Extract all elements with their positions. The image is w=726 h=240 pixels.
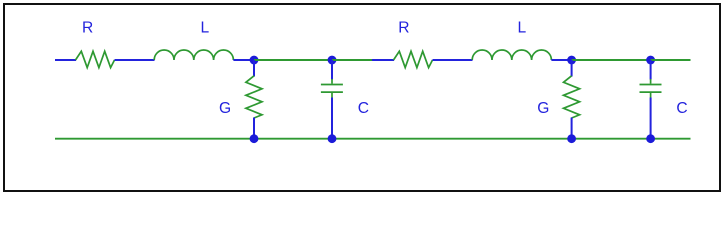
- svg-text:R: R: [82, 19, 93, 36]
- wire: bottom rail: [55, 138, 691, 140]
- svg-text:L: L: [518, 19, 527, 36]
- node D' (bottom of C branch, section 2): [646, 134, 655, 143]
- wire: node A to node B (top): [254, 59, 332, 61]
- svg-text:G: G: [219, 100, 231, 117]
- node B' (bottom of C branch, section 1): [328, 134, 337, 143]
- resistor G (shunt, section 1): [246, 76, 262, 118]
- wire: blue part before R section 2: [372, 59, 394, 61]
- wire: node C to node D (top): [572, 59, 651, 61]
- node A (top of G branch, section 1): [250, 56, 259, 65]
- wire: node A down to G (blue lead): [253, 60, 255, 77]
- wire: top-left input stub: [55, 59, 76, 61]
- wire: G down to bottom node (blue lead): [253, 118, 255, 139]
- wire: L to node A: [233, 59, 254, 61]
- node C (top of G branch, section 2): [567, 56, 576, 65]
- wire: capacitor down to bottom node (blue lead, section 2): [650, 98, 652, 139]
- wire: L to node C: [551, 59, 571, 61]
- wire: node B down to capacitor (blue lead): [331, 60, 333, 80]
- capacitor C (shunt, section 2): [640, 79, 662, 98]
- svg-text:C: C: [676, 100, 687, 117]
- wire: node D to right end (top): [651, 59, 691, 61]
- svg-text:G: G: [537, 100, 549, 117]
- svg-text:R: R: [398, 19, 409, 36]
- border frame: [4, 4, 720, 191]
- node A' (bottom of G branch, section 1): [250, 134, 259, 143]
- wire: capacitor down to bottom node (blue lead): [331, 98, 333, 139]
- resistor R (series, section 2): [394, 51, 433, 67]
- wire: node D down to capacitor (blue lead, section 2): [650, 60, 652, 80]
- inductor L (series, section 2): [472, 50, 551, 60]
- node D (top of C branch, section 2): [646, 56, 655, 65]
- resistor R (series, section 1): [76, 51, 115, 67]
- node C' (bottom of G branch, section 2): [567, 134, 576, 143]
- wire: between R and L (section 2): [433, 59, 473, 61]
- svg-text:C: C: [358, 100, 369, 117]
- wire: between R and L (section 1): [115, 59, 155, 61]
- wire: node B to section 2 (green part): [332, 59, 372, 61]
- inductor L (series, section 1): [154, 50, 233, 60]
- node B (top of C branch, section 1): [328, 56, 337, 65]
- wire: node C down to G (blue lead): [571, 60, 573, 77]
- resistor G (shunt, section 2): [564, 76, 580, 118]
- svg-text:L: L: [201, 19, 210, 36]
- wire: G down to bottom node (blue lead, section 2): [571, 118, 573, 139]
- capacitor C (shunt, section 1): [321, 79, 343, 98]
